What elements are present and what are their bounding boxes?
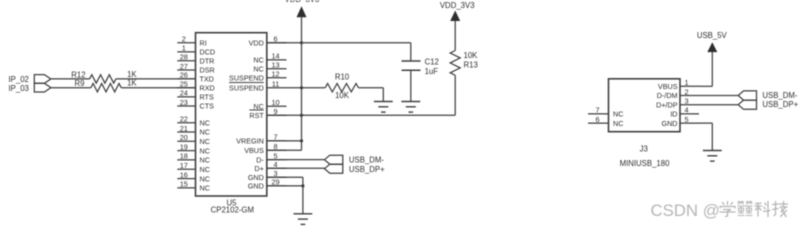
svg-text:14: 14: [271, 52, 279, 61]
svg-text:D+: D+: [254, 164, 263, 173]
svg-text:6: 6: [595, 115, 599, 124]
svg-text:4: 4: [684, 106, 688, 115]
svg-text:10: 10: [271, 98, 279, 107]
svg-text:GND: GND: [662, 119, 678, 128]
svg-text:NC: NC: [200, 174, 210, 183]
svg-text:DCD: DCD: [200, 48, 216, 57]
svg-text:D-: D-: [256, 155, 264, 164]
svg-text:13: 13: [271, 61, 279, 70]
svg-text:ID: ID: [670, 110, 677, 119]
svg-text:D-/DM: D-/DM: [657, 91, 678, 100]
svg-text:CP2102-GM: CP2102-GM: [211, 206, 254, 215]
svg-text:RST: RST: [249, 111, 264, 120]
svg-text:NC: NC: [200, 137, 210, 146]
svg-text:27: 27: [180, 62, 188, 71]
svg-text:D+/DP: D+/DP: [656, 100, 678, 109]
svg-text:28: 28: [180, 53, 188, 62]
svg-text:CTS: CTS: [200, 102, 215, 111]
svg-text:NC: NC: [200, 118, 210, 127]
svg-text:VBUS: VBUS: [658, 82, 678, 91]
svg-text:23: 23: [180, 98, 188, 107]
svg-text:VDD: VDD: [249, 39, 264, 48]
svg-text:15: 15: [180, 180, 188, 189]
svg-text:18: 18: [180, 152, 188, 161]
svg-text:1K: 1K: [127, 79, 137, 88]
svg-text:DSR: DSR: [200, 66, 215, 75]
svg-text:3: 3: [684, 97, 688, 106]
svg-text:21: 21: [180, 124, 188, 133]
svg-text:USB_DP+: USB_DP+: [349, 165, 385, 174]
svg-text:USB_5V: USB_5V: [697, 31, 728, 40]
svg-text:VDD_3V3: VDD_3V3: [440, 1, 475, 10]
svg-text:1: 1: [684, 78, 688, 87]
svg-text:NC: NC: [253, 65, 263, 74]
svg-text:1uF: 1uF: [425, 67, 439, 76]
svg-text:R13: R13: [464, 60, 478, 69]
svg-text:RXD: RXD: [200, 83, 215, 92]
svg-text:RTS: RTS: [200, 93, 214, 102]
svg-text:TXD: TXD: [200, 75, 214, 84]
svg-text:7: 7: [595, 106, 599, 115]
svg-text:16: 16: [180, 170, 188, 179]
svg-text:IP_02: IP_02: [9, 75, 29, 84]
svg-text:10K: 10K: [464, 51, 479, 60]
svg-text:2: 2: [182, 35, 186, 44]
svg-text:J3: J3: [640, 144, 648, 153]
svg-text:SUSPEND: SUSPEND: [229, 83, 264, 92]
svg-text:1: 1: [182, 44, 186, 53]
svg-text:USB_DP+: USB_DP+: [762, 100, 798, 109]
svg-text:MINIUSB_180: MINIUSB_180: [620, 159, 670, 168]
svg-text:USB_DM-: USB_DM-: [762, 91, 797, 100]
svg-text:VBUS: VBUS: [244, 146, 264, 155]
svg-text:2: 2: [684, 87, 688, 96]
svg-text:NC: NC: [200, 165, 210, 174]
svg-text:17: 17: [180, 161, 188, 170]
svg-text:NC: NC: [253, 56, 263, 65]
svg-text:20: 20: [180, 133, 188, 142]
svg-text:GND: GND: [248, 173, 264, 182]
svg-text:NC: NC: [613, 119, 623, 128]
svg-text:USB_DM-: USB_DM-: [349, 156, 384, 165]
svg-text:11: 11: [272, 80, 280, 89]
svg-text:NC: NC: [613, 110, 623, 119]
svg-text:R9: R9: [75, 79, 85, 88]
svg-text:R10: R10: [335, 73, 350, 82]
svg-text:CSDN @: CSDN @: [651, 201, 720, 220]
svg-text:VREGIN: VREGIN: [236, 137, 264, 146]
svg-text:SUSPEND: SUSPEND: [229, 74, 264, 83]
svg-text:DTR: DTR: [200, 56, 215, 65]
svg-text:24: 24: [180, 89, 188, 98]
svg-text:IP_03: IP_03: [9, 84, 29, 93]
svg-text:19: 19: [180, 142, 188, 151]
svg-text:GND: GND: [248, 182, 264, 191]
svg-text:NC: NC: [200, 156, 210, 165]
svg-text:10K: 10K: [335, 91, 350, 100]
svg-text:RI: RI: [200, 38, 207, 47]
svg-text:C12: C12: [425, 58, 439, 67]
svg-text:NC: NC: [200, 184, 210, 193]
svg-text:12: 12: [271, 70, 279, 79]
svg-text:NC: NC: [200, 128, 210, 137]
svg-text:5: 5: [684, 115, 688, 124]
svg-text:22: 22: [180, 115, 188, 124]
svg-text:NC: NC: [200, 146, 210, 155]
